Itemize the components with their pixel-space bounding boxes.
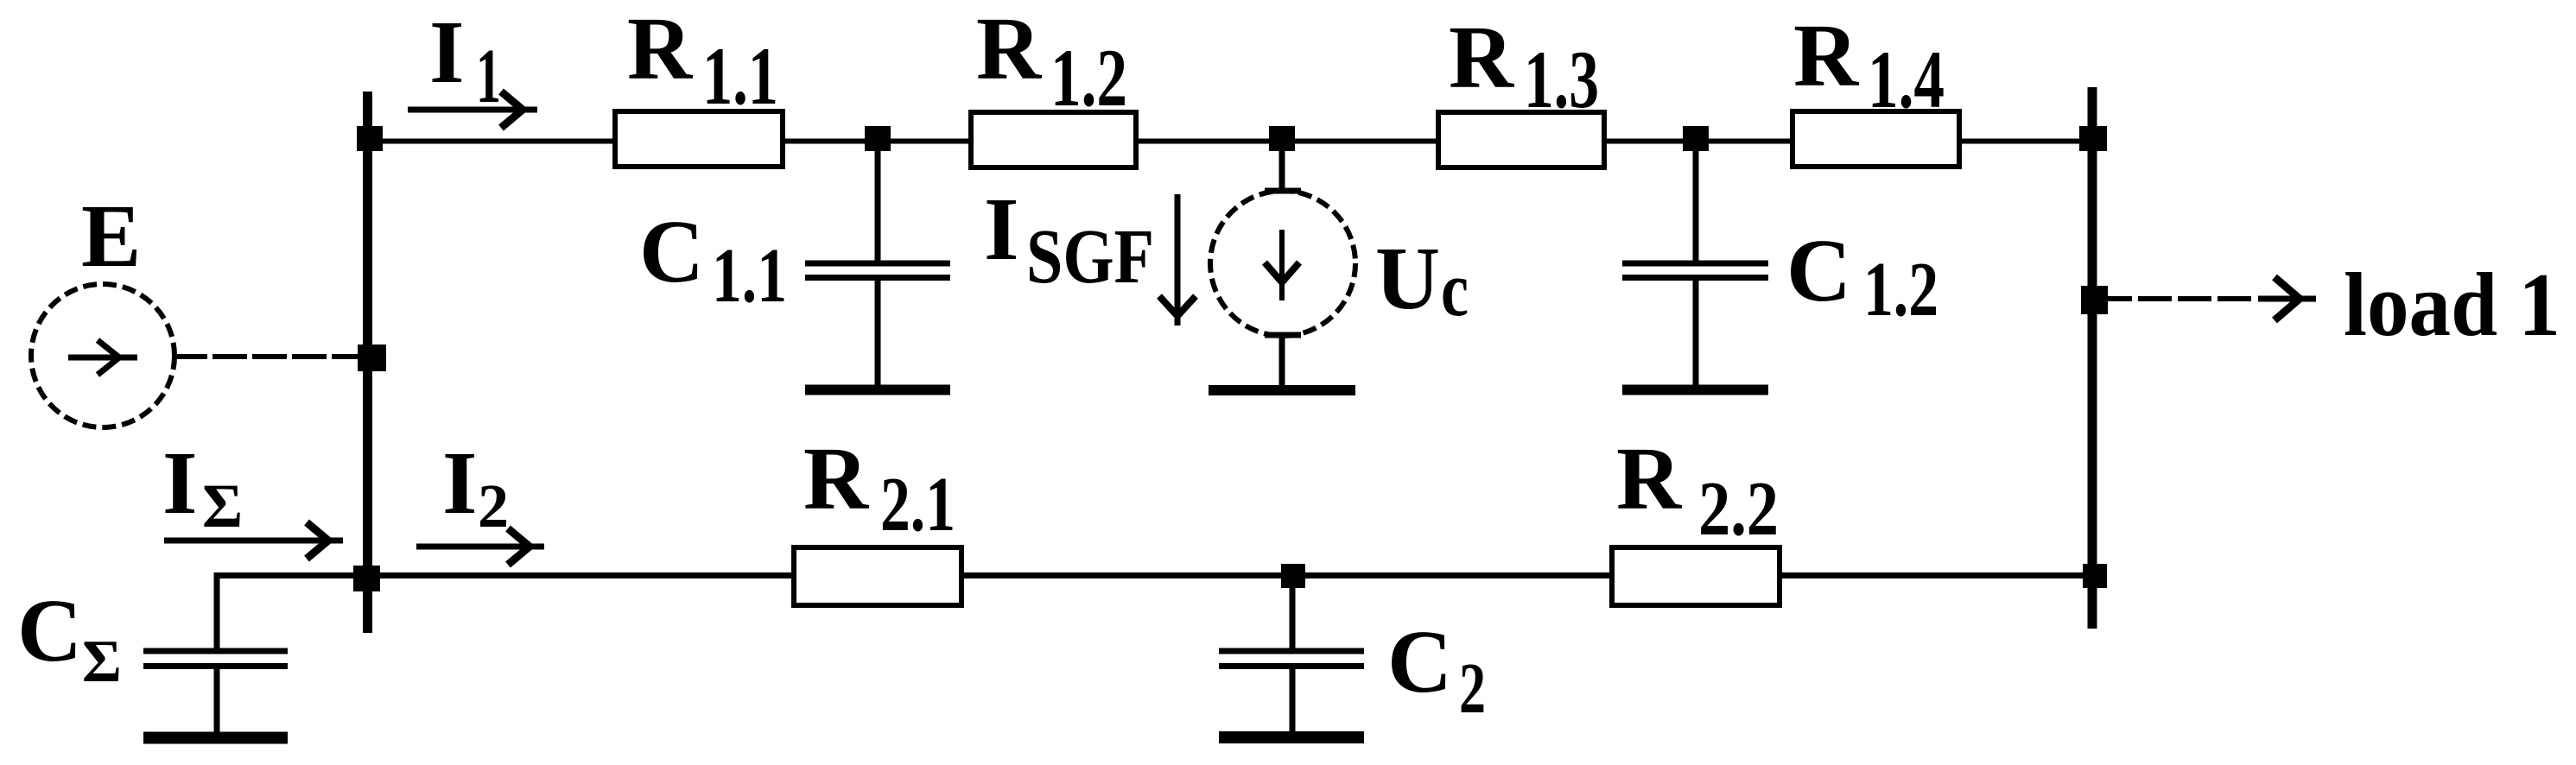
- svg-text:R: R: [803, 429, 870, 528]
- capacitor C1.2: [1693, 141, 1699, 261]
- svg-text:R: R: [627, 0, 694, 98]
- svg-text:2.1: 2.1: [880, 462, 955, 547]
- svg-text:R: R: [1793, 6, 1860, 105]
- svg-text:2: 2: [1459, 648, 1486, 729]
- arrow I1: [408, 107, 537, 113]
- node bottom right bus: [2083, 564, 2107, 588]
- arrow I_SGF downward: [1175, 194, 1181, 326]
- wire top main horizontal: [367, 139, 2092, 144]
- node after R1.1: [865, 126, 891, 151]
- svg-text:U: U: [1375, 229, 1440, 328]
- svg-text:I: I: [162, 433, 197, 533]
- svg-text:I: I: [442, 433, 477, 533]
- node left bus bottom wire: [353, 566, 380, 591]
- svg-text:SGF: SGF: [1026, 214, 1154, 300]
- svg-text:I: I: [429, 3, 464, 102]
- wire dashed to load 1: [2098, 296, 2251, 301]
- node after R1.2: [1269, 126, 1295, 151]
- svg-text:1.3: 1.3: [1524, 34, 1599, 125]
- svg-text:1.4: 1.4: [1868, 34, 1945, 125]
- resistor R1.3: [1438, 112, 1604, 168]
- ground for C sigma: [143, 732, 288, 744]
- svg-text:1.1: 1.1: [712, 233, 787, 319]
- wire bottom main horizontal with C sigma branch: [217, 576, 2092, 649]
- svg-text:I: I: [984, 180, 1018, 279]
- svg-text:1: 1: [476, 34, 501, 119]
- ground for current source: [1209, 385, 1355, 395]
- arrow I2: [416, 544, 544, 550]
- capacitor C sigma: [143, 648, 288, 654]
- svg-text:E: E: [81, 187, 141, 286]
- svg-text:1.2: 1.2: [1863, 247, 1938, 332]
- svg-text:2: 2: [478, 471, 509, 541]
- ground for C2: [1219, 731, 1364, 743]
- node load branch: [2081, 286, 2108, 314]
- svg-text:C: C: [639, 202, 704, 301]
- capacitor C2: [1290, 576, 1296, 648]
- svg-text:R: R: [976, 0, 1043, 98]
- svg-text:C: C: [17, 581, 82, 680]
- node C2 junction: [1281, 564, 1305, 588]
- resistor R1.2: [971, 112, 1136, 168]
- capacitor C1.1: [875, 141, 881, 261]
- svg-text:C: C: [1786, 221, 1851, 320]
- svg-text:load 1: load 1: [2344, 254, 2560, 355]
- bus left vertical: [363, 92, 372, 633]
- svg-text:2.2: 2.2: [1698, 466, 1779, 552]
- svg-text:Σ: Σ: [202, 471, 243, 541]
- node top left bus junction: [357, 126, 383, 151]
- svg-text:1.1: 1.1: [702, 30, 778, 122]
- ground for C1.2: [1622, 385, 1768, 395]
- svg-text:Σ: Σ: [82, 629, 122, 695]
- node top right bus: [2079, 126, 2107, 151]
- svg-text:R: R: [1449, 8, 1515, 107]
- svg-text:R: R: [1616, 429, 1683, 528]
- resistor R2.1: [794, 547, 961, 605]
- resistor R1.1: [615, 111, 783, 167]
- current source Uc: [1279, 141, 1285, 192]
- arrow I sigma: [164, 538, 343, 544]
- resistor R1.4: [1792, 111, 1959, 167]
- svg-text:c: c: [1441, 247, 1469, 332]
- node after R1.3: [1683, 126, 1709, 151]
- svg-text:C: C: [1387, 612, 1452, 711]
- resistor R2.2: [1612, 547, 1780, 605]
- bus right vertical: [2088, 87, 2097, 629]
- node left bus at E branch: [358, 345, 386, 371]
- source E: [31, 284, 174, 427]
- wire dashed from source E to left bus: [173, 354, 366, 359]
- ground for C1.1: [805, 385, 950, 395]
- svg-text:1.2: 1.2: [1050, 32, 1127, 123]
